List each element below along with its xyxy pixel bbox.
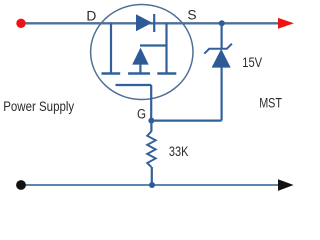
diode D1 on top rail: anode-cathode triangle (136, 14, 152, 31)
svg-text:MST: MST (259, 94, 282, 110)
wire: bottom rail (power supply - to MST -) (21, 184, 280, 186)
svg-text:S: S (187, 8, 196, 23)
wire: top rail to zener cathode (221, 23, 223, 49)
mosfet Q1 channel stub (drain) (102, 72, 121, 74)
node G junction dot (148, 118, 154, 124)
svg-text:G: G (137, 107, 146, 122)
resistor R1 zigzag body 33K (147, 131, 156, 167)
mosfet Q1 source lead (right vertical) (165, 23, 167, 73)
svg-text:15V: 15V (242, 55, 262, 70)
diode D1 cathode bar (153, 14, 155, 32)
arrowhead: output to MST + (red) (278, 18, 294, 29)
node S junction dot on top rail (219, 20, 225, 26)
mosfet Q1 body circle (91, 5, 193, 100)
zener ZD1 anode lead down to gate-node wire (221, 68, 223, 121)
wire: gate node to zener anode (horizontal) (151, 119, 221, 121)
mosfet Q1 drain lead (left vertical) (110, 23, 112, 73)
node: bottom rail junction dot (149, 182, 155, 188)
svg-text:Power Supply: Power Supply (3, 98, 74, 114)
svg-text:33K: 33K (169, 144, 189, 159)
resistor R1 bottom lead (151, 167, 153, 185)
zener ZD1 cathode bar with bent ends (204, 44, 232, 54)
arrowhead: output to MST - (black) (278, 179, 294, 191)
terminal: power supply negative (black dot) (16, 180, 26, 190)
mosfet Q1 channel stub (body) (128, 72, 150, 74)
terminal: power supply positive (red dot) (16, 19, 25, 28)
mosfet Q1 channel stub (source) (157, 72, 176, 74)
mosfet Q1 gate electrode bar (116, 84, 152, 86)
svg-text:D: D (86, 9, 96, 24)
body diode DB anode lead (139, 65, 141, 75)
resistor R1 top lead (150, 121, 152, 132)
body diode DB triangle (pointing up) (132, 48, 149, 65)
body diode DB cathode link to source (140, 44, 167, 46)
mosfet Q1 gate lead down to node G (150, 85, 152, 121)
zener ZD1 triangle (anode below, pointing up) (212, 49, 231, 68)
wire: top rail (power supply + to MST +) (21, 22, 280, 24)
